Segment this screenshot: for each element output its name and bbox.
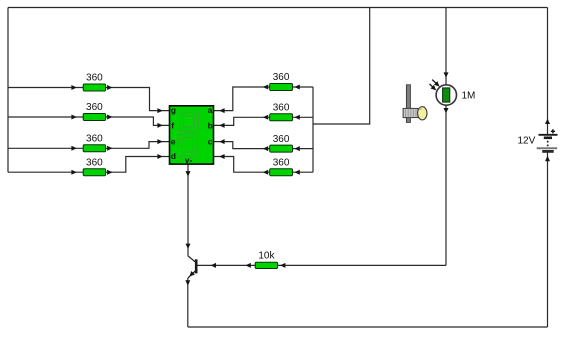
LDR light arrow 2	[430, 84, 434, 88]
battery B1 plate + long	[539, 134, 558, 136]
current arrow row4 right b	[294, 170, 299, 175]
current arrow LDR above	[444, 72, 449, 77]
wire row3 right (pin c)	[214, 142, 314, 149]
current arrow base wire before 10k	[245, 263, 250, 268]
svg-text:360: 360	[86, 157, 103, 168]
svg-text:360: 360	[273, 157, 290, 168]
current arrow v- wire upper	[186, 171, 191, 176]
current arrow row1 right a	[263, 85, 268, 90]
transistor Q1 base bar	[195, 259, 198, 273]
LDR R10 green element	[443, 88, 450, 102]
wire bottom rail	[188, 326, 548, 328]
battery plus sign	[551, 129, 555, 133]
current arrow base wire near transistor	[211, 263, 216, 268]
wire display v- to transistor collector	[187, 164, 189, 256]
resistor R2 360	[83, 114, 105, 121]
svg-text:b: b	[208, 120, 213, 130]
svg-text:1M: 1M	[462, 91, 476, 102]
wire top rail	[8, 7, 548, 9]
wire row4 left (to pin d)	[8, 157, 170, 173]
wire emitter to bottom rail	[187, 278, 189, 327]
battery B1 plate2 short	[542, 150, 554, 153]
current arrow battery above	[545, 119, 550, 124]
wire row1 left (to pin g)	[8, 88, 170, 111]
display segments figure-8	[177, 112, 199, 156]
resistor R9 10k	[255, 262, 277, 268]
resistor R4 360	[83, 169, 105, 176]
wire row2 right (pin b)	[214, 117, 314, 125]
wire right resistor bus	[312, 87, 314, 172]
svg-text:10k: 10k	[258, 251, 275, 262]
current arrow pin b	[219, 123, 224, 128]
resistor R8 360	[270, 169, 293, 176]
current arrow pin e	[157, 139, 162, 144]
svg-text:v-: v-	[185, 155, 193, 165]
LDR R10 circle	[436, 85, 456, 105]
svg-text:a: a	[208, 105, 213, 115]
current arrow pin g	[157, 108, 162, 113]
battery B1 dotted link	[547, 141, 549, 149]
seven-segment display U1 body	[170, 106, 214, 164]
battery B1 plate2 long	[537, 147, 558, 149]
wire left bus	[7, 8, 9, 173]
current arrow LDR below	[444, 108, 449, 113]
svg-text:g: g	[171, 105, 176, 115]
svg-text:e: e	[171, 137, 176, 147]
current arrow row4 left a	[71, 170, 76, 175]
current arrow row4 right a	[263, 170, 268, 175]
wire right rail lower (battery -)	[547, 151, 549, 327]
current arrow row1 left a	[71, 85, 76, 90]
wire right rail upper (battery +)	[547, 8, 549, 135]
current arrow base wire after 10k	[280, 263, 285, 268]
svg-text:360: 360	[86, 102, 103, 113]
svg-text:360: 360	[86, 134, 103, 145]
svg-text:f: f	[171, 120, 174, 130]
current arrow row2 right a	[263, 115, 268, 120]
current arrow pin a	[219, 108, 224, 113]
wire bus feed to top rail	[313, 8, 370, 125]
current arrow row1 left b	[107, 85, 112, 90]
current arrow row1 right b	[294, 85, 299, 90]
resistor R5 360	[270, 84, 293, 91]
svg-text:360: 360	[273, 72, 290, 83]
current arrow v- wire lower	[186, 244, 191, 249]
resistor R1 360	[83, 84, 105, 91]
wire row2 left (to pin f)	[8, 117, 170, 125]
wire LDR top branch	[445, 8, 447, 85]
current arrow pin d	[157, 154, 162, 159]
LDR light arrow 1	[432, 80, 437, 85]
wire LDR bottom to base run	[445, 105, 447, 265]
transistor Q1 emitter arrow	[188, 271, 195, 278]
current arrow row3 left a	[71, 146, 76, 151]
current arrow pin c	[219, 139, 224, 144]
current arrow row4 left b	[107, 170, 112, 175]
resistor R6 360	[270, 114, 293, 121]
current arrow row2 right b	[294, 115, 299, 120]
current arrow row3 right b	[294, 146, 299, 151]
wire base run (10k to transistor)	[196, 264, 446, 266]
current arrow row3 right a	[263, 146, 268, 151]
svg-text:360: 360	[86, 73, 103, 84]
wire row4 right (pin dp)	[214, 157, 314, 173]
current arrow battery below	[545, 156, 550, 161]
transistor Q1 emitter lead	[188, 270, 196, 278]
transistor Q1 collector lead	[188, 256, 196, 263]
torch body	[403, 108, 418, 117]
svg-text:360: 360	[273, 103, 290, 114]
current arrow emitter wire	[185, 280, 190, 285]
resistor R3 360	[83, 145, 105, 152]
wire row3 left (to pin e)	[8, 142, 170, 149]
wire row1 right (pin a)	[214, 87, 314, 111]
current arrow row2 left a	[71, 115, 76, 120]
torch body ridges	[406, 109, 416, 117]
svg-text:d: d	[171, 151, 176, 161]
torch slider track	[406, 85, 410, 123]
torch lens	[418, 107, 427, 120]
current arrow pin f	[157, 123, 162, 128]
battery B1 plate - short	[544, 137, 552, 140]
svg-text:12V: 12V	[518, 135, 536, 146]
torch lens cap highlight	[418, 107, 422, 110]
current arrow row2 left b	[107, 115, 112, 120]
current arrow pin dp	[219, 154, 224, 159]
svg-text:c: c	[208, 137, 213, 147]
svg-text:360: 360	[273, 134, 290, 145]
resistor R7 360	[270, 145, 293, 152]
current arrow row3 left b	[107, 146, 112, 151]
